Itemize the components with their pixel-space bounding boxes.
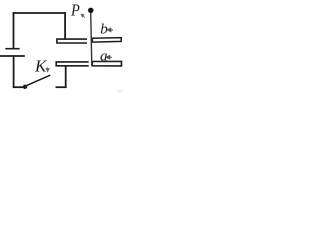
svg-text:b: b	[100, 21, 108, 37]
faint scan smudge	[117, 90, 122, 93]
wire: bottom horizontal from corner to switch pivot	[13, 86, 24, 88]
wire: top horizontal from battery to top plate	[13, 12, 66, 14]
capacitor bottom plate a: left section (hole at string)	[56, 62, 88, 66]
wire: right vertical from bottom plate down to bottom wire	[65, 66, 67, 88]
svg-text:K: K	[34, 57, 48, 76]
capacitor bottom plate a: right section	[92, 61, 121, 66]
capacitor top plate b: right section	[92, 38, 121, 43]
battery cell: long plate	[0, 55, 25, 57]
string: thin wire hanging from node P through hole in top plate	[91, 12, 92, 66]
switch K: open blade	[27, 75, 51, 85]
battery cell: short plate	[5, 48, 19, 50]
label b pointer arrow	[107, 28, 113, 31]
label P pointer arrow	[81, 14, 85, 18]
label K pointer arrow	[46, 67, 49, 71]
wire: bottom horizontal from fixed contact to bottom-right corner	[56, 86, 67, 88]
capacitor top plate b: left section (hole at string)	[57, 39, 87, 43]
svg-text:P: P	[70, 0, 80, 19]
wire: right vertical from top wire down to top plate	[64, 12, 66, 39]
svg-text:a: a	[100, 49, 108, 65]
label a pointer arrow	[106, 56, 112, 59]
wire: left vertical from battery to bottom-left corner	[13, 57, 15, 87]
node P: suspension point dot	[88, 8, 93, 13]
wire: left vertical from top wire to battery	[13, 12, 15, 48]
switch K: pivot dot	[23, 85, 27, 89]
